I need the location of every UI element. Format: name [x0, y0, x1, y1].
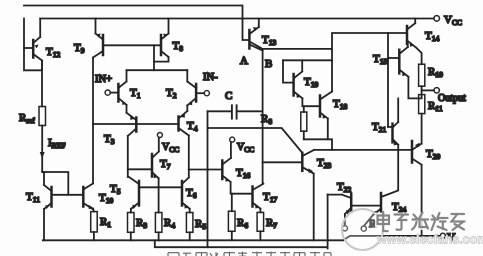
wire cap right lead	[238, 110, 263, 112]
wire T11 collector diode tie	[43, 172, 45, 185]
wire T9 emitter to Vcc rail	[95, 19, 97, 34]
wire T23 emitter down to bottom rail	[313, 174, 315, 241]
svg-text:B: B	[265, 58, 272, 70]
wire T22/T24 base line	[351, 205, 381, 207]
svg-text:T8: T8	[173, 40, 184, 53]
resistor R3	[128, 213, 135, 233]
wire R1 to bottom rail	[93, 232, 95, 240]
resistor R4	[155, 213, 162, 233]
wire T3 collector down to T5 collector node	[127, 136, 129, 177]
svg-text:R3: R3	[136, 217, 147, 230]
wire T13 emitter to Vcc rail	[258, 19, 260, 28]
transistor T22	[342, 194, 351, 215]
wire T12 collector to Rref	[41, 61, 43, 107]
svg-text:T13: T13	[262, 34, 276, 47]
wire T3/T4 base line	[93, 123, 179, 125]
wire T2 collector up to bus	[186, 70, 188, 81]
wire R6 to bottom rail	[231, 231, 233, 240]
wire T6 collector up to node	[188, 170, 190, 178]
terminal null 1	[342, 226, 347, 231]
wire R3 to bottom rail	[130, 232, 132, 240]
svg-text:IN-: IN-	[203, 72, 218, 83]
terminal -VEE	[440, 233, 445, 238]
wire T24 emitter to null terminal	[365, 215, 374, 225]
svg-text:R6: R6	[237, 217, 248, 230]
svg-text:T12: T12	[46, 46, 60, 59]
svg-text:C: C	[225, 90, 232, 102]
svg-text:T3: T3	[104, 133, 115, 146]
wire T21 collector up to output node line	[397, 98, 399, 122]
wire T19 emitter to T18 base node	[302, 98, 320, 106]
wire T5 emitter to R3	[130, 209, 132, 213]
wire T9 collector bus down to T3/T4 bases and T10 collector	[92, 58, 94, 184]
svg-text:T1: T1	[130, 87, 141, 100]
wire T8 base node down to input pair collector bus	[153, 45, 155, 70]
wire T12 emitter to Vcc rail	[39, 19, 41, 38]
resistor Rref	[39, 107, 46, 126]
resistor R8	[301, 112, 307, 131]
wire R5 to bottom rail	[189, 232, 191, 240]
svg-text:T18: T18	[333, 98, 347, 111]
wire T4 collector down to second-stage input node	[188, 136, 190, 170]
wire Vcc supply rail	[40, 18, 434, 20]
wire T11/T10 base rail	[52, 194, 84, 196]
svg-text:T14: T14	[425, 30, 439, 43]
svg-text:T21: T21	[372, 121, 386, 134]
terminal Output	[434, 88, 439, 93]
transistor T3	[127, 113, 137, 136]
wire T14 collector to Vcc rail	[414, 19, 416, 24]
transistor T14	[407, 23, 416, 47]
wire T22 emitter to null terminal	[344, 214, 346, 224]
wire R6 tap	[231, 194, 233, 212]
svg-text:T24: T24	[392, 201, 406, 214]
wire T5/T6 base rail	[139, 186, 182, 188]
wire T21 emitter down to T24 collector	[381, 145, 398, 197]
wire T7 collector to Vcc terminal	[158, 138, 160, 152]
wire Rref to current source node with IREF arrow	[41, 126, 43, 173]
svg-text:Rref: Rref	[19, 112, 35, 125]
wire T18 emitter down	[327, 119, 329, 140]
svg-text:T11: T11	[26, 191, 40, 204]
wire T13 collector B line to bias network	[263, 48, 332, 50]
wire T1/T2 collector bus	[127, 69, 188, 71]
wire node B vertical to T14 base line	[332, 33, 407, 60]
wire T1 emitter down to T3 emitter	[126, 105, 128, 113]
svg-text:R7: R7	[266, 217, 277, 230]
caption text below (clipped at page bottom)	[168, 252, 331, 256]
wire R11 bottom to T20 emitter	[421, 114, 423, 144]
wire T19 collector to top rail	[301, 60, 303, 71]
svg-text:R1: R1	[100, 216, 111, 229]
watermark Chinese characters (elecfans)	[375, 212, 466, 231]
wire output node column	[421, 86, 423, 94]
transistor T11	[44, 185, 52, 209]
transistor T2	[187, 82, 196, 106]
wire T16 emitter to T17 base	[231, 182, 253, 194]
svg-text:T20: T20	[426, 148, 440, 161]
transistor T5	[129, 177, 139, 209]
transistor T21	[388, 122, 398, 145]
wire R8 bottom lead	[303, 131, 305, 139]
transistor T18	[320, 92, 332, 119]
svg-text:T4: T4	[187, 120, 198, 133]
svg-text:T9: T9	[74, 42, 85, 55]
svg-text:T17: T17	[263, 191, 277, 204]
transistor T13 dual collector	[249, 27, 262, 51]
transistor T1	[118, 82, 126, 106]
svg-text:T7: T7	[160, 158, 171, 171]
wire T14 emitter to R10	[416, 48, 422, 65]
transistor T10	[83, 184, 93, 210]
terminal Vcc (second stage)	[230, 137, 235, 142]
wire IREF node jog to T11/T10 base rail	[42, 172, 68, 195]
wire T10 emitter to R1	[92, 209, 95, 212]
svg-text:A: A	[240, 55, 248, 67]
wire T9/T8 base line	[103, 44, 161, 46]
svg-text:T6: T6	[186, 187, 197, 200]
wire T2 emitter down to T4 emitter	[186, 106, 188, 112]
wire T18 collector up to node B rail	[331, 60, 333, 91]
transistor T24	[373, 193, 381, 215]
wire T22 collector column to lower rail	[327, 195, 329, 249]
wire output lead	[422, 89, 434, 91]
svg-text:T16: T16	[236, 167, 250, 180]
transistor T23	[302, 150, 314, 174]
wire T16 collector to Vcc terminal	[230, 142, 232, 158]
wire T17 emitter to R7	[259, 209, 261, 213]
wire T23 collector / T20 base line	[314, 149, 412, 151]
wire T15 emitter to output node	[408, 77, 421, 99]
wire lower auxiliary rail	[155, 240, 328, 247]
transistor T8	[161, 34, 169, 58]
wire T8 collector-base diode loop	[154, 57, 169, 62]
transistor T7	[128, 152, 159, 179]
svg-text:R5: R5	[195, 218, 206, 231]
svg-text:VCC: VCC	[237, 142, 254, 154]
svg-text:T2: T2	[166, 87, 177, 100]
transistor T4	[179, 111, 189, 136]
terminal Vcc (input stage)	[157, 133, 162, 138]
wire top bias rail (T12 to T13 base)	[24, 6, 249, 41]
wire T6 emitter to R5	[189, 209, 191, 213]
wire T12 base to rail1	[24, 19, 42, 71]
svg-text:T23: T23	[317, 157, 331, 170]
terminal IN+	[105, 90, 110, 95]
wire T22 collector line	[328, 194, 342, 196]
terminal IN-	[204, 91, 209, 96]
wire R4 to bottom rail	[158, 232, 160, 240]
wire T23 base line from second stage output	[263, 161, 303, 163]
transistor T12	[24, 37, 42, 61]
svg-text:IREF: IREF	[48, 137, 65, 150]
svg-text:www.elecfans.com: www.elecfans.com	[376, 233, 483, 247]
transistor T17	[253, 184, 264, 209]
transistor T15	[388, 47, 408, 77]
capacitor C	[232, 105, 237, 118]
wire T7 emitter through base rail to R4	[158, 178, 160, 212]
wire T15 base / T21 base vertical from T14 base line	[387, 33, 389, 127]
resistor R10	[419, 64, 425, 86]
svg-text:T5: T5	[110, 183, 121, 196]
resistor R7	[257, 212, 264, 231]
wire cap left lead	[208, 110, 232, 112]
wire R7 to bottom rail	[259, 231, 261, 240]
resistor R1	[91, 212, 98, 232]
wire node to T23 base (horizontal + diagonal)	[208, 128, 303, 153]
svg-text:R8: R8	[261, 113, 272, 126]
wire T1 collector up to bus	[126, 70, 128, 81]
wire R8 top lead	[303, 106, 305, 112]
transistor T6	[182, 178, 190, 209]
wire IN- to T2 base	[196, 92, 204, 94]
watermark big circle	[342, 209, 383, 250]
svg-text:T15: T15	[373, 53, 387, 66]
wire bias box left branch (node B to T19 base)	[283, 60, 294, 82]
wire T15 collector to T14 base	[407, 44, 409, 47]
terminal null 2	[361, 226, 366, 231]
terminal Vcc main	[434, 16, 440, 22]
wire T11 emitter to bottom rail	[43, 209, 45, 240]
wire bottom negative rail (left)	[43, 239, 343, 241]
wire T20 collector down to negative rail	[421, 165, 423, 236]
transistor T20	[412, 141, 422, 165]
transistor T16	[189, 158, 231, 182]
resistor R6	[228, 211, 235, 231]
wire bias network bottom node	[304, 139, 332, 150]
svg-text:VCC: VCC	[444, 14, 462, 27]
wire IN+ to T1 base	[110, 92, 118, 94]
svg-text:R10: R10	[428, 66, 443, 79]
wire T8 emitter to Vcc rail	[168, 19, 170, 34]
resistor R11	[419, 95, 425, 114]
resistor R5	[186, 213, 193, 233]
wire bottom rail step to right section	[343, 236, 440, 240]
svg-text:VCC: VCC	[162, 142, 179, 154]
svg-text:T19: T19	[304, 76, 318, 89]
transistor T9	[93, 34, 103, 58]
wire T13 collector A down to T17 collector / cap node	[262, 50, 264, 184]
svg-text:IN+: IN+	[95, 74, 112, 85]
svg-text:Output: Output	[438, 93, 466, 104]
svg-text:R4: R4	[164, 217, 175, 230]
transistor T19	[294, 72, 303, 99]
svg-text:T22: T22	[337, 181, 351, 194]
wire second stage input column	[207, 111, 209, 247]
wire bias box top rail	[283, 59, 332, 61]
